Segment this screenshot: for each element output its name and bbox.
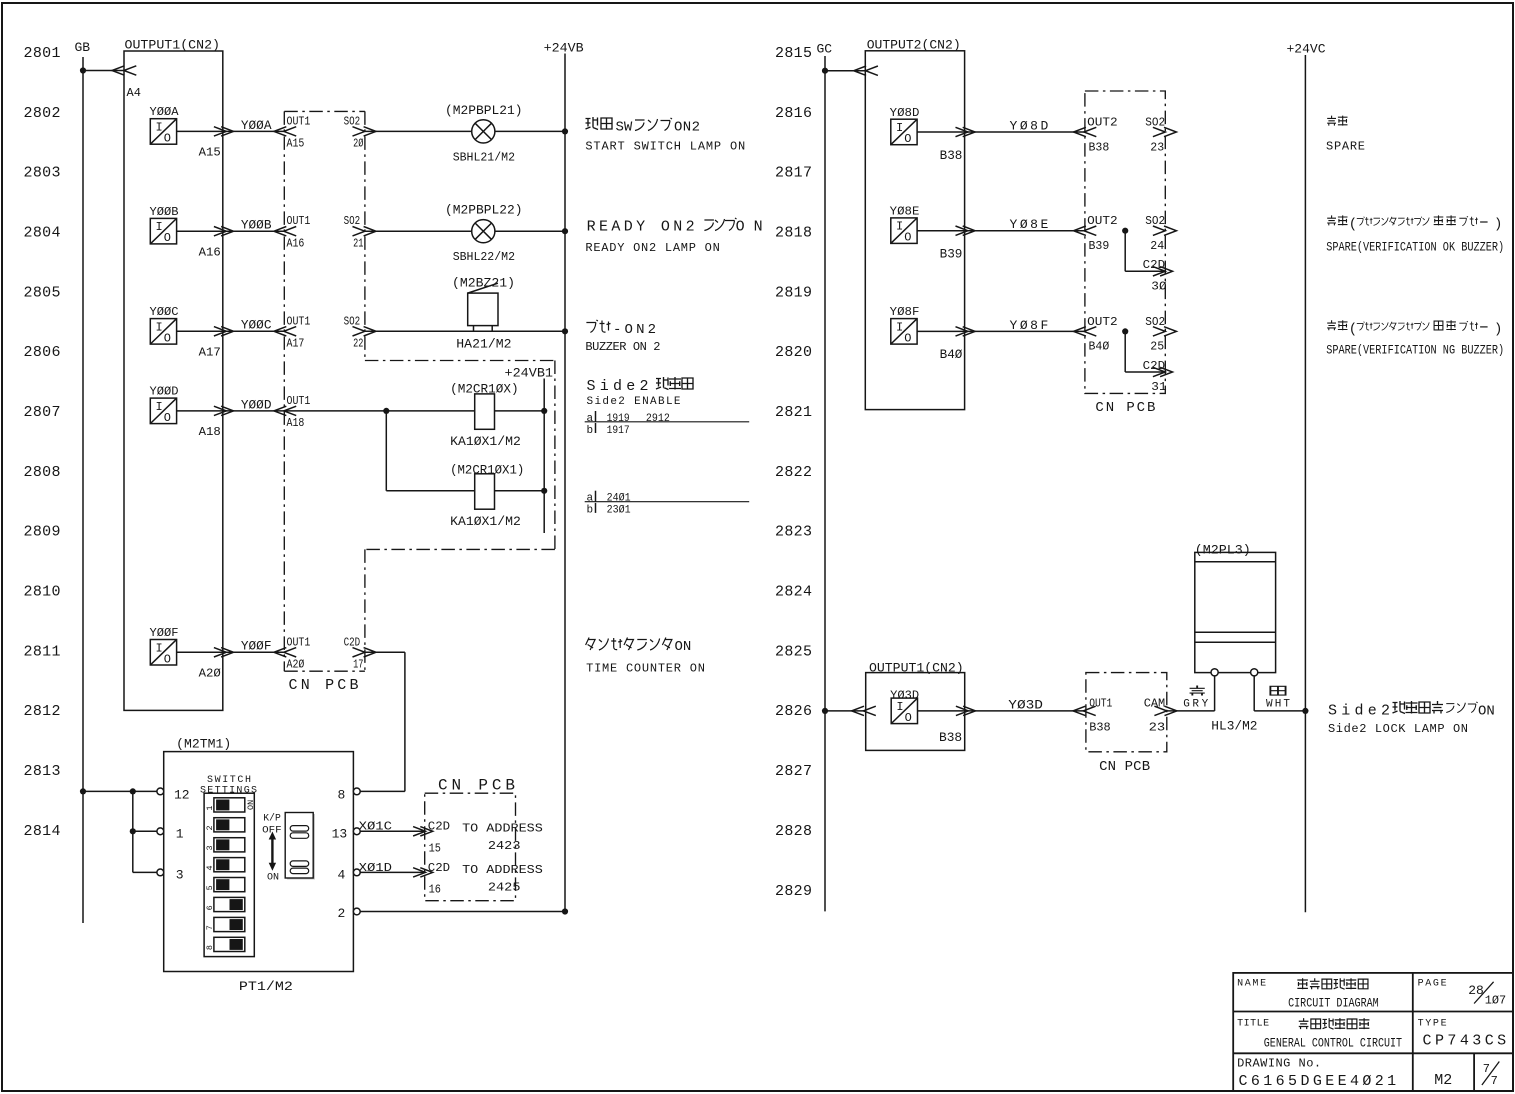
text label rung 2807: Side2 ENABLE (JP+EN) [587, 377, 694, 408]
output driver Y08D (I/O) [890, 106, 920, 146]
svg-text:OUT1: OUT1 [287, 114, 311, 128]
connector chevrons SO2 21 [353, 227, 377, 236]
wire pin 4 to X01D [360, 871, 425, 873]
svg-text:2423: 2423 [488, 839, 521, 853]
title block PAGE cell 28/107 [1418, 978, 1507, 1007]
svg-text:B39: B39 [1089, 239, 1110, 253]
connector chevrons out Y00B [214, 227, 234, 236]
title block TITLE cell [1237, 1018, 1402, 1050]
wire coil2 to +24VB1 [495, 490, 545, 492]
wire Y00B to lamp and +24VB [365, 230, 472, 232]
svg-text:CP743CS: CP743CS [1423, 1032, 1507, 1049]
svg-text:2824: 2824 [775, 584, 812, 601]
connector chevrons OUT1 B38 (2826) [1073, 706, 1096, 715]
svg-text:2825: 2825 [775, 643, 812, 660]
svg-text:1Ø7: 1Ø7 [1485, 994, 1506, 1008]
net +24VB1 local bus [505, 365, 554, 533]
svg-text:2818: 2818 [775, 225, 812, 242]
pin label C2D 15 [428, 820, 450, 856]
svg-text:Side2 LOCK LAMP ON: Side2 LOCK LAMP ON [1328, 722, 1468, 736]
svg-text:YØØF: YØØF [241, 639, 272, 654]
svg-text:OUT1: OUT1 [287, 314, 311, 328]
svg-text:B4Ø: B4Ø [940, 347, 963, 362]
junction Y08E branch [1122, 228, 1128, 234]
svg-text:ON: ON [1478, 703, 1495, 719]
connector chevrons out Y00A [214, 127, 234, 136]
svg-text:): ) [1494, 321, 1502, 337]
connector chevrons C2D 17 [353, 648, 377, 657]
svg-text:M2: M2 [1434, 1072, 1452, 1089]
wire Y00A driver to CN PCB [177, 130, 285, 132]
wire GC vertical bus [824, 56, 826, 911]
text label rung 2816: SPARE (JP+EN) [1326, 116, 1365, 154]
indicator lamp HL3 (M2PL3) body [1195, 543, 1276, 673]
svg-text:NAME: NAME [1237, 978, 1266, 989]
text label rung 2806: BUZZER ON 2 (JP+EN) [585, 320, 660, 354]
net +24VB bus [544, 41, 584, 912]
svg-text:OUT2: OUT2 [1087, 315, 1118, 329]
svg-text:6: 6 [205, 905, 215, 910]
svg-text:SBHL21/M2: SBHL21/M2 [453, 150, 515, 164]
junction GC top [822, 68, 828, 74]
connector chevrons out Y08E [956, 226, 976, 235]
svg-text:A2Ø: A2Ø [287, 658, 305, 672]
svg-text:24Ø1: 24Ø1 [607, 493, 631, 505]
wire Y08E driver to CN PCB [917, 230, 1085, 232]
wire branch vertical [132, 791, 134, 872]
svg-text:XØ1D: XØ1D [359, 861, 392, 875]
svg-text:A18: A18 [199, 425, 221, 439]
connector chevrons out Y08F [956, 327, 976, 336]
wire branch down to second coil [385, 411, 387, 491]
svg-text:B4Ø: B4Ø [1089, 340, 1110, 354]
wire branch to C2D 30 [1124, 231, 1126, 272]
connector chevrons SO2 24 [1153, 226, 1177, 235]
svg-text:YØØB: YØØB [150, 205, 179, 219]
svg-text:C2D: C2D [428, 861, 450, 875]
svg-text:YØØC: YØØC [241, 318, 272, 333]
text label rung 2826: Side2 LOCK LAMP ON (JP+EN) [1328, 701, 1495, 736]
svg-text:SO2: SO2 [344, 214, 361, 228]
pin 2 [338, 906, 361, 921]
svg-text:a: a [587, 493, 594, 505]
svg-text:YØ3D: YØ3D [1008, 697, 1043, 712]
svg-text:2809: 2809 [24, 524, 61, 541]
wire GRY lead up [1214, 676, 1216, 711]
svg-text:YØØA: YØØA [241, 118, 272, 133]
connector chevrons CAM 23 [1154, 706, 1177, 715]
svg-text:3Ø: 3Ø [1151, 279, 1166, 293]
wire branch to C2D 31 [1124, 331, 1126, 372]
svg-text:2821: 2821 [775, 404, 812, 421]
wire pin 13 to X01C [360, 830, 425, 832]
svg-text:SW: SW [616, 120, 633, 136]
wire WHT lead down [1253, 676, 1255, 711]
junction coil1 +24VB1 [541, 408, 547, 414]
svg-text:B38: B38 [939, 730, 962, 745]
svg-text:A16: A16 [287, 236, 305, 250]
wire GB to pin 12 [83, 790, 157, 792]
title block NAME cell [1237, 978, 1379, 1010]
svg-text:2808: 2808 [24, 464, 61, 481]
pin 8 [338, 787, 361, 802]
net +24VC bus [1287, 42, 1326, 913]
text TO ADDRESS 2425 [462, 863, 543, 895]
wire pin 2 to +24VB [360, 911, 565, 913]
svg-text:PAGE: PAGE [1418, 978, 1447, 989]
junction coil2 +24VB1 [541, 488, 547, 494]
wire Y00F to PT1 pin 8 [365, 651, 405, 653]
svg-text:CN PCB: CN PCB [1095, 400, 1155, 416]
svg-text:YØØA: YØØA [150, 105, 180, 119]
svg-text:1919: 1919 [607, 413, 630, 425]
svg-text:WHT: WHT [1266, 698, 1290, 710]
junction Y00A at +24VB [562, 128, 568, 134]
wire GC to OUTPUT1 (2826) [825, 710, 866, 712]
junction 2826 at +24VC [1302, 708, 1308, 714]
svg-text:23Ø1: 23Ø1 [607, 505, 631, 517]
svg-text:OUT2: OUT2 [1087, 214, 1118, 228]
svg-text:7: 7 [1483, 1062, 1490, 1076]
svg-text:SO2: SO2 [1145, 115, 1165, 129]
svg-text:2807: 2807 [24, 404, 61, 421]
svg-text:1: 1 [205, 806, 215, 811]
connector chevrons OUT1 A16 [274, 227, 296, 236]
svg-text:A15: A15 [287, 137, 305, 151]
svg-text:GRY: GRY [1183, 698, 1208, 710]
wire WHT to +24VC [1254, 710, 1305, 712]
pin label C2D 16 [428, 861, 450, 897]
svg-text:23: 23 [1150, 140, 1164, 154]
svg-text:B39: B39 [940, 247, 963, 262]
svg-text:2815: 2815 [775, 45, 812, 62]
title block DRAWING No. cell [1237, 1057, 1396, 1091]
wire to pin 1 [133, 830, 157, 832]
svg-text:(: ( [1349, 216, 1357, 232]
text label rung 2811: TIME COUNTER ON (JP+EN) [586, 638, 705, 676]
svg-text:2813: 2813 [24, 763, 61, 780]
svg-text:KA1ØX1/M2: KA1ØX1/M2 [450, 514, 521, 529]
connector chevrons SO2 23 [1153, 127, 1177, 136]
svg-text:8: 8 [205, 945, 215, 950]
svg-text:3: 3 [205, 845, 215, 850]
svg-text:A2Ø: A2Ø [199, 667, 221, 681]
output driver Y08F (I/O) [890, 305, 920, 345]
wire Y00B driver to CN PCB [177, 230, 285, 232]
DIP switch SWITCH SETTINGS [200, 775, 257, 957]
svg-text:B38: B38 [1089, 140, 1110, 154]
svg-text:SO2: SO2 [344, 114, 361, 128]
svg-text:YØ8E: YØ8E [890, 205, 920, 219]
svg-text:2425: 2425 [488, 880, 521, 894]
svg-text:YØ8E: YØ8E [1010, 217, 1049, 232]
output driver Y00A (I/O) [150, 105, 180, 145]
svg-text:2826: 2826 [775, 703, 812, 720]
output driver Y00B (I/O) [150, 205, 179, 245]
svg-text:ON: ON [267, 872, 279, 883]
wire Y00D to relay coils [284, 410, 474, 412]
svg-text:YØØF: YØØF [150, 626, 179, 640]
svg-text:DRAWING No.: DRAWING No. [1237, 1057, 1321, 1071]
svg-text:SPARE(VERIFICATION NG BUZZER): SPARE(VERIFICATION NG BUZZER) [1326, 342, 1504, 357]
svg-text:(M2PBPL22): (M2PBPL22) [445, 203, 523, 218]
svg-text:2803: 2803 [24, 165, 61, 182]
svg-text:Side2 ENABLE: Side2 ENABLE [587, 396, 681, 408]
svg-text:+24VB1: +24VB1 [505, 365, 554, 380]
text label rung 2802: START SWITCH LAMP ON (JP+EN) [585, 117, 745, 153]
wire to pin 3 [133, 871, 157, 873]
wire Y00F driver to CN PCB [177, 651, 285, 653]
svg-text:C6165DGEE4Ø21: C6165DGEE4Ø21 [1239, 1073, 1397, 1090]
svg-text:2814: 2814 [24, 823, 61, 840]
junction Y00B at +24VB [562, 228, 568, 234]
connector chevrons out Y00C [214, 327, 234, 336]
svg-text:SPARE: SPARE [1326, 139, 1365, 153]
svg-text:2822: 2822 [775, 464, 812, 481]
connector CN PCB (address box) [425, 777, 516, 901]
svg-text:22: 22 [353, 337, 363, 351]
svg-text:23: 23 [1149, 721, 1166, 735]
output driver Y00C (I/O) [150, 305, 179, 345]
svg-text:READY ON2 LAMP ON: READY ON2 LAMP ON [585, 241, 719, 255]
svg-text:SO2: SO2 [1145, 315, 1165, 329]
connector chevrons OUT1 A20 [274, 648, 296, 657]
svg-text:(M2TM1): (M2TM1) [176, 736, 231, 751]
svg-text:ON: ON [246, 800, 256, 810]
lamp SBHL21/M2 (M2PBPL21) [445, 103, 523, 165]
svg-text:2820: 2820 [775, 344, 812, 361]
svg-text:2802: 2802 [24, 105, 61, 122]
wire Y00A to lamp and +24VB [365, 130, 472, 132]
svg-text:2823: 2823 [775, 524, 812, 541]
connector chevrons OUT2 B40 [1074, 327, 1097, 336]
rung number labels 2801-2814 [24, 45, 61, 840]
svg-text:ON: ON [675, 639, 692, 655]
svg-text:START SWITCH LAMP ON: START SWITCH LAMP ON [585, 139, 745, 153]
svg-text:C2D: C2D [1143, 258, 1165, 272]
svg-text:XØ1C: XØ1C [359, 820, 392, 834]
svg-text:7: 7 [1491, 1074, 1498, 1088]
svg-text:12: 12 [174, 787, 190, 802]
connector chevrons SO2 25 [1153, 327, 1177, 336]
wire Y08F driver to CN PCB [917, 330, 1085, 332]
text label rung 2804: READY ON2 LAMP ON (JP+EN) [585, 218, 762, 255]
svg-text:Side2: Side2 [587, 378, 649, 395]
svg-text:YØØB: YØØB [241, 218, 272, 233]
svg-text:YØ8F: YØ8F [1010, 318, 1049, 333]
wire Y00C to buzzer and +24VB [365, 330, 565, 332]
svg-text:2819: 2819 [775, 284, 812, 301]
output driver Y08E (I/O) [890, 205, 920, 245]
svg-text:a: a [587, 413, 594, 425]
connector chevrons out Y00F [214, 648, 234, 657]
buzzer HA21/M2 (M2BZ21) [452, 276, 515, 352]
svg-text:SBHL22/M2: SBHL22/M2 [453, 250, 515, 264]
output driver Y03D (I/O) [890, 689, 919, 725]
connector CN PCB dash-dot box (right half) [1085, 91, 1165, 393]
svg-text:17: 17 [353, 658, 363, 672]
pin 4 [338, 868, 361, 883]
junction branch 791 [130, 788, 136, 794]
svg-text:5: 5 [205, 885, 215, 890]
svg-text:ON2: ON2 [674, 120, 700, 136]
junction relay branch [383, 408, 389, 414]
svg-text:SO2: SO2 [344, 314, 361, 328]
pin 12 [157, 787, 190, 802]
svg-text:2: 2 [205, 825, 215, 830]
svg-text:YØ8F: YØ8F [890, 305, 920, 319]
connector chevrons SO2 22 [353, 327, 377, 336]
connector CN PCB (2826) [1086, 673, 1167, 752]
svg-text:KA1ØX1/M2: KA1ØX1/M2 [450, 434, 521, 449]
connector box OUTPUT1(CN2) [124, 38, 223, 711]
svg-text:OUT1: OUT1 [287, 214, 311, 228]
svg-text:4: 4 [338, 868, 346, 883]
svg-text:BUZZER ON 2: BUZZER ON 2 [585, 340, 660, 354]
connector chevrons SO2 20 [353, 127, 377, 136]
connector chevrons OUT1 A15 [274, 127, 296, 136]
text label rung 2820: SPARE VERIFICATION NG BUZZER (JP+EN) [1326, 320, 1504, 357]
connector chevrons C2D 31 [1153, 367, 1173, 376]
connector chevrons OUT2 B38 [1074, 127, 1097, 136]
svg-text:b: b [587, 505, 594, 517]
svg-text:7: 7 [205, 925, 215, 930]
svg-text:31: 31 [1151, 380, 1166, 394]
svg-text:PT1/M2: PT1/M2 [239, 979, 293, 994]
svg-text:OUT2: OUT2 [1087, 115, 1118, 129]
svg-text:15: 15 [429, 841, 441, 855]
svg-text:2805: 2805 [24, 284, 61, 301]
svg-text:2806: 2806 [24, 344, 61, 361]
svg-text:2810: 2810 [24, 584, 61, 601]
svg-text:SETTINGS: SETTINGS [200, 785, 257, 796]
svg-text:(M2PL3): (M2PL3) [1195, 543, 1251, 558]
connector chevrons out Y08D [956, 127, 976, 136]
wire Y03D to CN PCB [918, 710, 1086, 712]
svg-text:SO2: SO2 [1145, 214, 1165, 228]
svg-text:2804: 2804 [24, 225, 61, 242]
terminal WHT [1251, 669, 1258, 676]
wire color label WHT [1266, 686, 1290, 710]
connector chevrons C2D 30 [1153, 267, 1173, 276]
title block sheet 7/7 [1482, 1062, 1499, 1088]
svg-text:OUT1: OUT1 [287, 394, 311, 408]
svg-text:Side2: Side2 [1328, 702, 1390, 719]
connector chevrons out Y00D [214, 406, 234, 415]
svg-text:(M2PBPL21): (M2PBPL21) [445, 103, 523, 118]
connector chevrons OUT2 B39 [1074, 226, 1097, 235]
pin 1 [157, 827, 184, 842]
svg-text:b: b [587, 425, 594, 437]
relay coil KA10X1/M2 (M2CR10X) [450, 382, 521, 450]
lamp SBHL22/M2 (M2PBPL22) [445, 203, 523, 265]
svg-text:1: 1 [176, 827, 184, 842]
slide switch icon [285, 813, 315, 880]
connector chevrons 2826 [852, 706, 876, 715]
wire color label GRY [1183, 686, 1208, 711]
svg-text:2811: 2811 [24, 643, 61, 660]
svg-text:TO ADDRESS: TO ADDRESS [462, 822, 543, 836]
svg-text:YØ8D: YØ8D [890, 106, 920, 120]
svg-text:21: 21 [353, 236, 363, 250]
svg-text:GB: GB [75, 40, 91, 55]
rung number labels 2815-2829 [775, 45, 812, 900]
wire coil1 to +24VB1 [495, 410, 545, 412]
svg-text:A15: A15 [199, 146, 221, 160]
svg-text:CN PCB: CN PCB [438, 777, 515, 795]
junction pin2 +24VB [562, 908, 568, 914]
svg-text:CN PCB: CN PCB [1099, 759, 1150, 775]
svg-text:SPARE(VERIFICATION OK BUZZER): SPARE(VERIFICATION OK BUZZER) [1326, 239, 1504, 254]
svg-text:A17: A17 [199, 346, 221, 360]
svg-text:OUT1: OUT1 [287, 635, 311, 649]
svg-text:READY ON2: READY ON2 [587, 218, 695, 235]
svg-text:24: 24 [1150, 239, 1164, 253]
connector chevrons X01C [413, 827, 433, 836]
pin 13 [332, 827, 361, 842]
svg-text:3: 3 [176, 868, 184, 883]
selector K/P OFF/ON arrow [262, 813, 282, 884]
svg-text:25: 25 [1150, 340, 1164, 354]
connector chevrons OUT1 A17 [274, 327, 296, 336]
connector chevrons out Y03D [956, 706, 976, 715]
title block TYPE cell CP743CS [1418, 1018, 1507, 1049]
relay coil KA10X1/M2 (M2CR10X1) [450, 462, 524, 529]
title block frame [1233, 973, 1513, 1091]
svg-text:A16: A16 [199, 246, 221, 260]
svg-text:OUT1: OUT1 [1089, 697, 1112, 711]
svg-text:K/P: K/P [263, 813, 281, 825]
junction GB top [80, 67, 86, 73]
junction Y00C at +24VB [562, 328, 568, 334]
svg-text:A4: A4 [127, 86, 141, 100]
svg-text:TITLE: TITLE [1237, 1018, 1269, 1029]
svg-text:(: ( [1349, 321, 1357, 337]
connector box OUTPUT1(CN2) (2826) [866, 660, 965, 750]
connector chevrons X01D [413, 868, 433, 877]
svg-text:2827: 2827 [775, 763, 812, 780]
svg-text:2828: 2828 [775, 823, 812, 840]
wire GB vertical bus [82, 57, 84, 923]
svg-text:TIME COUNTER ON: TIME COUNTER ON [586, 661, 705, 675]
cross-reference table a/b 1919 2912 1917 [585, 411, 750, 437]
svg-text:+24VC: +24VC [1287, 42, 1326, 57]
svg-text:+24VB: +24VB [544, 41, 584, 56]
wire CAM to lamp GRY lead [1167, 710, 1215, 712]
svg-text:YØØD: YØØD [150, 385, 179, 399]
wire Y00D driver to CN PCB [177, 410, 285, 412]
connector chevrons GC [854, 66, 878, 75]
output driver Y00D (I/O) [150, 385, 179, 425]
wire Y08D driver to CN PCB [917, 131, 1085, 133]
svg-text:ON: ON [736, 218, 763, 235]
connector box OUTPUT2(CN2) [865, 38, 964, 410]
svg-text:-ON2: -ON2 [613, 322, 656, 338]
svg-text:2: 2 [338, 906, 346, 921]
svg-text:SWITCH: SWITCH [207, 775, 251, 786]
svg-text:): ) [1494, 216, 1502, 232]
svg-text:A18: A18 [287, 416, 305, 430]
connector CN PCB dash-dot box (left half) [284, 111, 555, 671]
wire GC to OUTPUT2 [825, 70, 865, 72]
svg-text:8: 8 [338, 787, 346, 802]
svg-text:YØ8D: YØ8D [1010, 118, 1049, 133]
svg-text:YØØD: YØØD [241, 397, 272, 412]
svg-text:TO ADDRESS: TO ADDRESS [462, 863, 543, 877]
text TO ADDRESS 2423 [462, 822, 543, 854]
svg-text:1917: 1917 [607, 425, 630, 437]
junction GC rung 2826 [822, 708, 828, 714]
